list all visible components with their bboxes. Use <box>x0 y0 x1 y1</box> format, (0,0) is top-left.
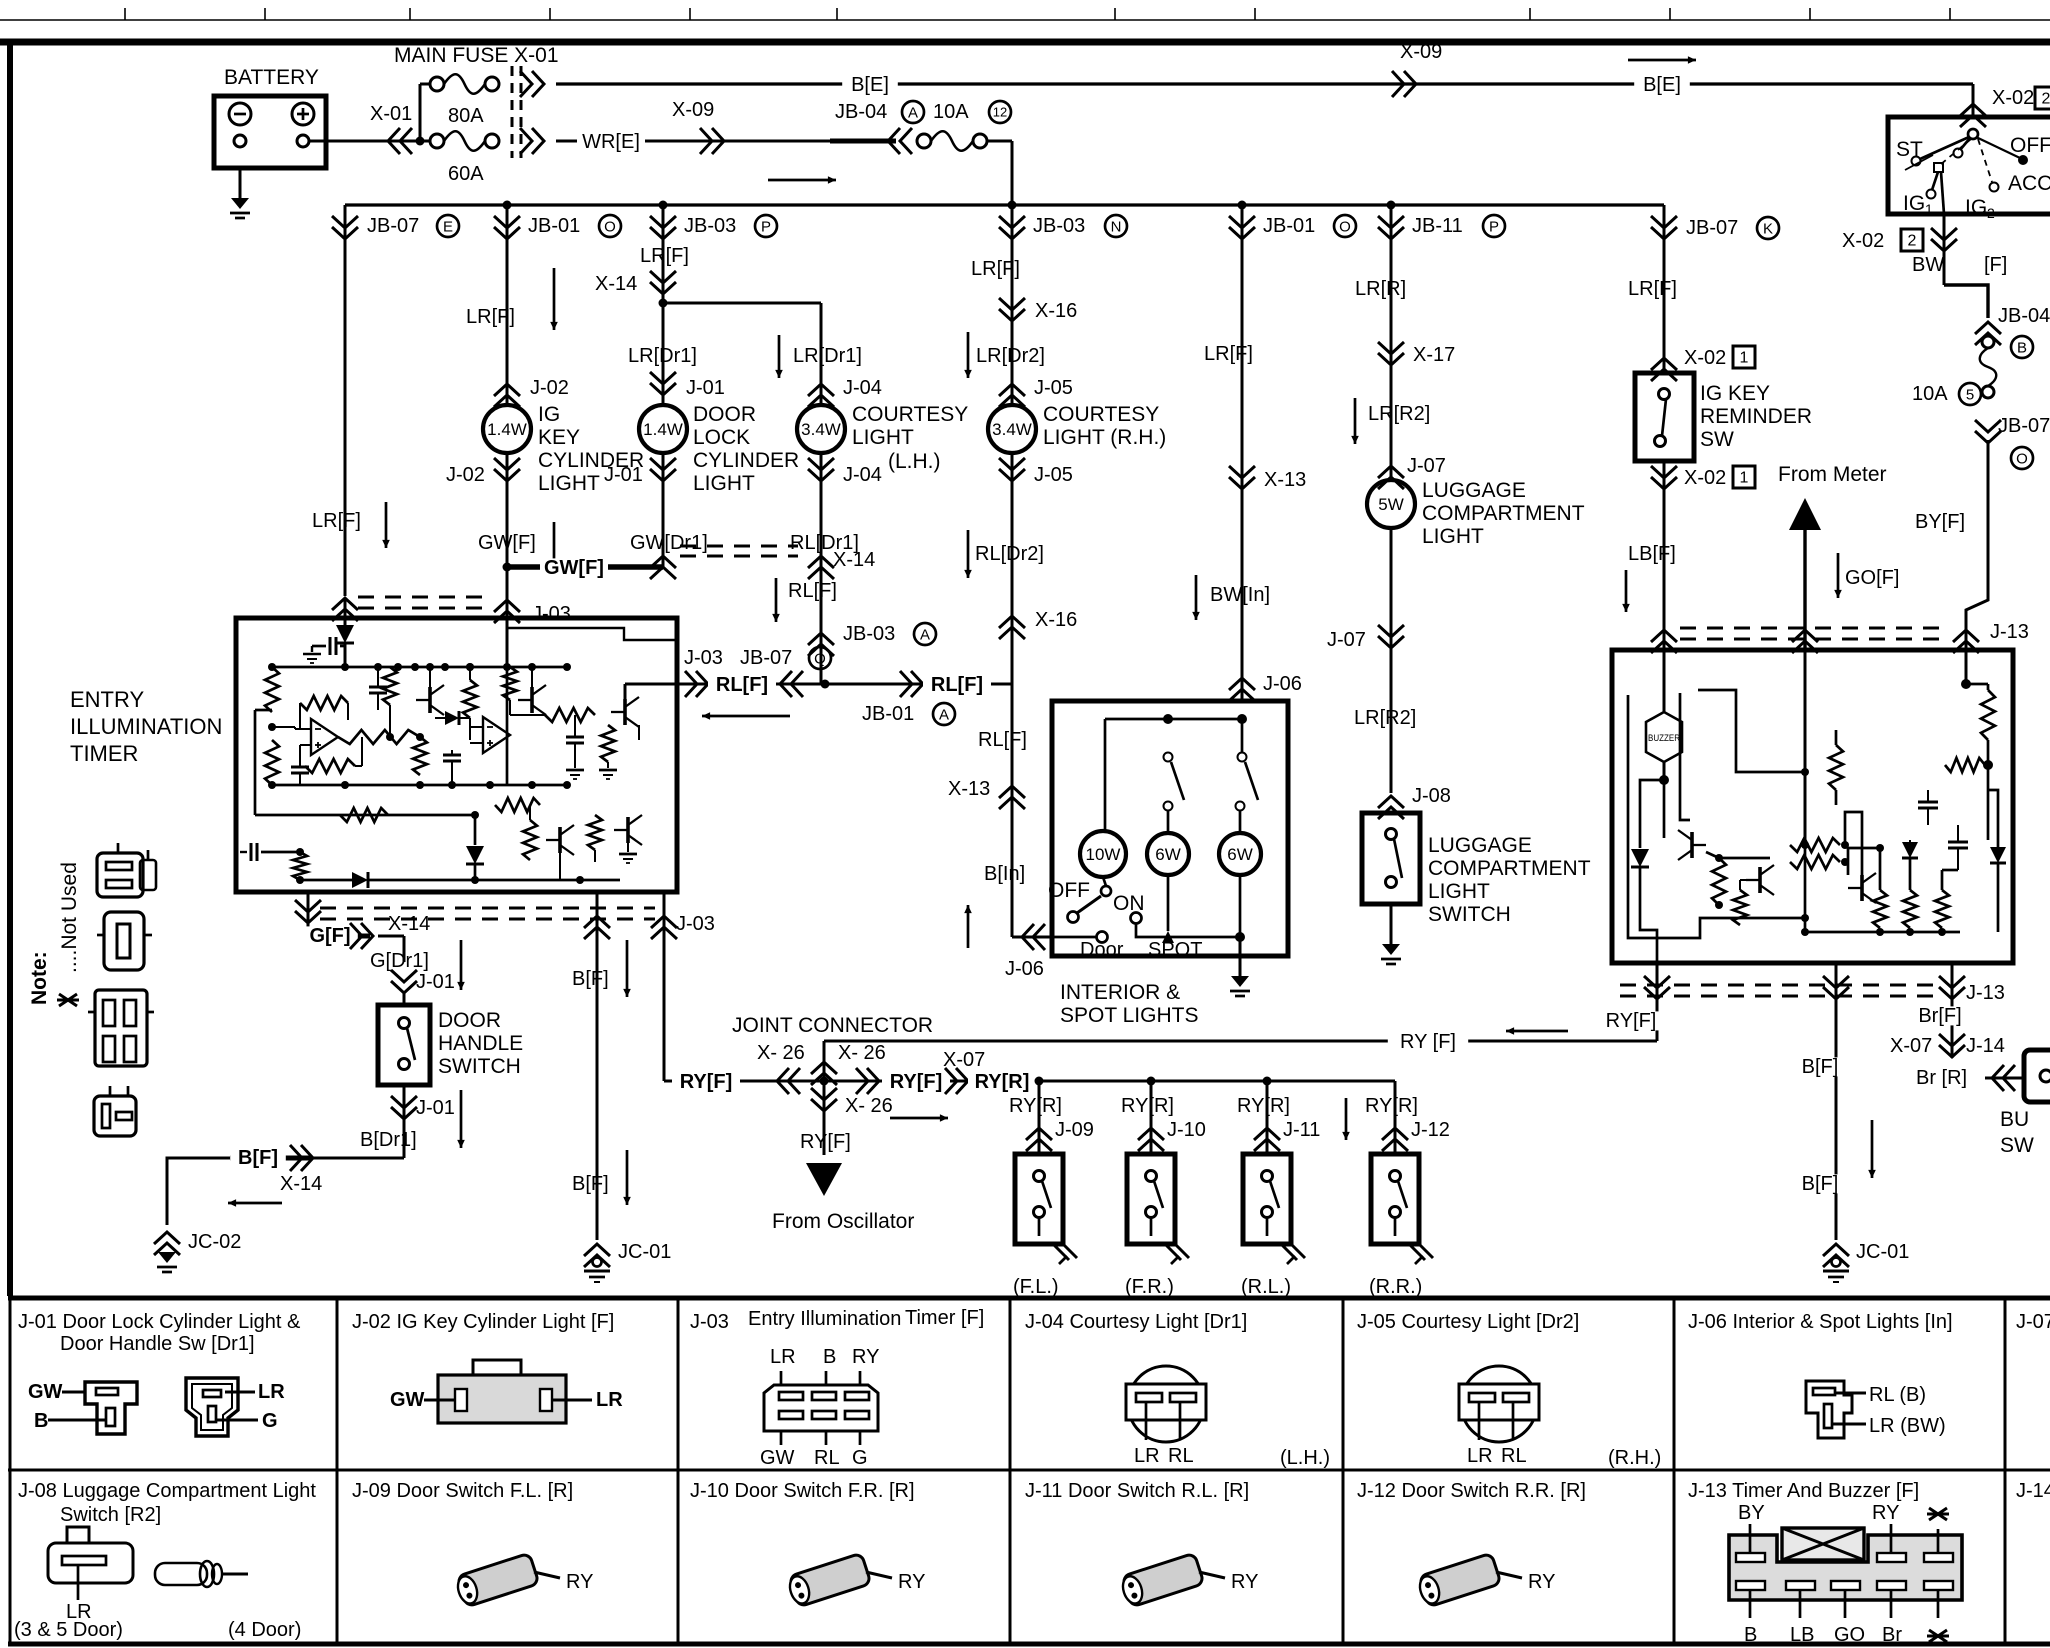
svg-text:X-02: X-02 <box>1992 87 2034 109</box>
table frame <box>8 1296 2050 1301</box>
svg-text:1: 1 <box>1925 201 1933 217</box>
svg-text:O: O <box>604 218 616 235</box>
svg-text:MAIN FUSE X-01: MAIN FUSE X-01 <box>394 44 559 67</box>
svg-text:LIGHT: LIGHT <box>693 472 755 495</box>
svg-text:LB[F]: LB[F] <box>1628 543 1676 565</box>
connector JB-07 K <box>1663 205 1666 373</box>
svg-text:X-14: X-14 <box>388 913 430 935</box>
switch J-12 door switch <box>1371 1154 1419 1244</box>
svg-text:RY[R]: RY[R] <box>1237 1095 1290 1117</box>
svg-text:Q: Q <box>814 650 826 667</box>
arrow under WR <box>768 179 836 182</box>
svg-text:(4 Door): (4 Door) <box>228 1619 301 1641</box>
svg-text:JC-01: JC-01 <box>618 1241 671 1263</box>
svg-text:GO: GO <box>1834 1624 1865 1646</box>
wire to 10W <box>1104 719 1107 831</box>
svg-text:J-03: J-03 <box>532 603 571 625</box>
svg-text:X-14: X-14 <box>595 273 637 295</box>
tb diode mid <box>1902 842 1918 858</box>
svg-text:B[In]: B[In] <box>984 863 1025 885</box>
connector X-26 down <box>823 1081 826 1155</box>
svg-text:X- 26: X- 26 <box>838 1042 886 1064</box>
svg-text:J-11 Door Switch R.L. [R]: J-11 Door Switch R.L. [R] <box>1025 1480 1249 1502</box>
connector X-09 on B[E] <box>1392 71 1416 97</box>
svg-text:P: P <box>1489 218 1499 235</box>
svg-text:X-01: X-01 <box>370 103 412 125</box>
svg-text:RY: RY <box>1231 1571 1258 1593</box>
wire RY[F] horizontal <box>664 1080 1395 1083</box>
svg-text:BUZZER: BUZZER <box>1648 733 1680 743</box>
arrow down <box>1354 398 1357 444</box>
svg-text:12: 12 <box>993 105 1007 120</box>
switch drawing J-12 <box>1416 1553 1501 1608</box>
arrow down between RL RR <box>1345 1098 1348 1140</box>
arrow down <box>385 502 388 548</box>
connector J-02 top <box>494 384 520 407</box>
connector X-02 2 lower <box>1931 228 1957 251</box>
ground hatch J-11 <box>1281 1244 1297 1260</box>
lamp spot 6W b <box>1219 833 1261 875</box>
switch drawing J-10 <box>786 1553 871 1608</box>
svg-text:GW: GW <box>390 1389 425 1411</box>
battery B1 <box>214 96 326 168</box>
svg-text:ENTRY: ENTRY <box>70 687 144 712</box>
svg-text:BU: BU <box>2000 1108 2029 1131</box>
svg-text:LR[R]: LR[R] <box>1355 278 1406 300</box>
top border <box>0 39 2050 46</box>
switch spot 2 <box>1241 719 1244 752</box>
svg-text:J-14: J-14 <box>1966 1035 2005 1057</box>
switch ignition ST/OFF/ACC/IG <box>1888 117 2050 214</box>
svg-text:(L.H.): (L.H.) <box>1280 1447 1330 1469</box>
svg-text:[F]: [F] <box>1984 254 2007 276</box>
svg-text:J-07: J-07 <box>1327 629 1366 651</box>
timer cap c2 <box>369 686 387 689</box>
timer feedback resistor 2 <box>305 759 355 773</box>
svg-text:BW[In]: BW[In] <box>1210 584 1270 606</box>
svg-text:B[E]: B[E] <box>851 74 889 96</box>
timer input cap and ground <box>340 645 345 648</box>
connector JB-04 B <box>1975 322 2001 345</box>
wire J-03 drop <box>506 567 509 618</box>
connector drawing a <box>97 853 143 897</box>
svg-text:RY[R]: RY[R] <box>975 1071 1030 1093</box>
svg-text:X-07: X-07 <box>943 1049 985 1071</box>
connector drawing b <box>104 912 144 970</box>
tb inner wire left <box>1628 695 1805 938</box>
svg-text:GW[F]: GW[F] <box>544 557 604 579</box>
svg-text:B: B <box>823 1346 836 1368</box>
tb right resistor <box>1961 679 1971 689</box>
svg-text:X-14: X-14 <box>833 549 875 571</box>
svg-text:IG: IG <box>1903 192 1925 215</box>
svg-text:J-07: J-07 <box>1407 455 1446 477</box>
svg-text:LIGHT: LIGHT <box>1422 525 1484 548</box>
svg-text:RL[F]: RL[F] <box>788 580 837 602</box>
connector X-07 J-14 <box>1939 1034 1965 1057</box>
switch drawing J-09 <box>454 1553 539 1608</box>
connector drawing J-04 <box>1128 1366 1204 1442</box>
svg-text:Door: Door <box>1080 939 1124 961</box>
svg-text:RY [F]: RY [F] <box>1400 1031 1456 1053</box>
lamp J-07 luggage compartment light 5W <box>1390 466 1393 480</box>
svg-text:J-01: J-01 <box>686 377 725 399</box>
svg-text:JC-02: JC-02 <box>188 1231 241 1253</box>
svg-text:J-08 Luggage Compartment Light: J-08 Luggage Compartment Light <box>18 1480 316 1502</box>
timer top-right branch wire <box>507 628 677 640</box>
svg-text:JOINT CONNECTOR: JOINT CONNECTOR <box>732 1014 933 1037</box>
connector JB-01 O <box>506 205 509 384</box>
arrow down <box>460 1090 463 1148</box>
arrow down <box>626 940 629 997</box>
connector J-13 bottom dashes <box>1620 984 1935 987</box>
lamp spot 6W a <box>1147 833 1189 875</box>
connector J-01 bottom <box>662 453 665 482</box>
svg-text:RL: RL <box>1168 1445 1194 1467</box>
svg-text:B[F]: B[F] <box>1802 1173 1839 1195</box>
arrow right <box>1628 59 1696 62</box>
svg-text:JB-07: JB-07 <box>1998 415 2050 437</box>
wire bus2 <box>345 203 1664 206</box>
svg-text:LR[Dr1]: LR[Dr1] <box>793 345 862 367</box>
wire fuse to bus2 <box>987 140 1012 143</box>
svg-text:3.4W: 3.4W <box>801 420 841 439</box>
svg-text:B: B <box>1744 1624 1757 1646</box>
timer transistor Q3 <box>623 699 627 725</box>
connector J-01 top <box>650 372 676 395</box>
svg-text:6W: 6W <box>1227 845 1253 864</box>
wire RY[F] return <box>824 1040 1657 1043</box>
svg-text:X-09: X-09 <box>672 99 714 121</box>
wire to buzzer switch <box>1985 1077 2024 1080</box>
connector J-07 top <box>1378 466 1404 489</box>
tb resistors r5 r6 r7 <box>1873 890 1887 928</box>
svg-text:LOCK: LOCK <box>693 426 750 449</box>
svg-text:J-11: J-11 <box>1283 1119 1320 1141</box>
svg-text:LIGHT (R.H.): LIGHT (R.H.) <box>1043 426 1166 449</box>
connector JC-01 right <box>1823 1244 1849 1267</box>
svg-text:10A: 10A <box>933 101 969 123</box>
svg-text:LR[F]: LR[F] <box>1204 343 1253 365</box>
connector J-05 bottom <box>1011 453 1014 482</box>
svg-text:G: G <box>852 1447 868 1469</box>
svg-text:....Not Used: ....Not Used <box>58 862 81 973</box>
svg-text:A: A <box>920 626 930 643</box>
connector J-10 <box>1150 1081 1153 1154</box>
connector JC-01 left <box>584 1244 610 1267</box>
connector J-04 top <box>808 384 834 407</box>
svg-text:J-10: J-10 <box>1167 1119 1206 1141</box>
svg-text:JB-07: JB-07 <box>1686 217 1738 239</box>
arrow down <box>626 1150 629 1205</box>
timer lower ground <box>627 843 629 852</box>
connector J-04 bottom <box>820 453 823 482</box>
timer mid vertical long <box>506 667 509 785</box>
timer cap c4 <box>566 736 584 739</box>
svg-text:BY: BY <box>1738 1502 1765 1524</box>
svg-text:J-07: J-07 <box>2016 1311 2050 1333</box>
timer input wire J-03 B <box>506 618 509 667</box>
svg-text:JB-11: JB-11 <box>1412 215 1463 237</box>
connector J-08 <box>1378 796 1404 819</box>
svg-text:J-08: J-08 <box>1412 785 1451 807</box>
svg-text:J-04: J-04 <box>843 464 882 486</box>
svg-text:1.4W: 1.4W <box>487 420 527 439</box>
svg-text:RY: RY <box>852 1346 879 1368</box>
lamp spot 10W <box>1080 831 1126 877</box>
svg-text:Switch [R2]: Switch [R2] <box>60 1504 161 1526</box>
arrow down <box>553 268 556 330</box>
svg-text:X-02: X-02 <box>1684 347 1726 369</box>
svg-text:BY[F]: BY[F] <box>1915 511 1965 533</box>
tb zener <box>1990 847 2006 863</box>
tb wire mid down <box>1804 845 1807 932</box>
connector X-02 1 lower <box>1663 461 1666 492</box>
svg-text:JB-07: JB-07 <box>740 647 792 669</box>
svg-text:X-02: X-02 <box>1684 467 1726 489</box>
connector X-16 <box>999 298 1025 321</box>
svg-text:B[E]: B[E] <box>1643 74 1681 96</box>
svg-text:G: G <box>262 1410 278 1432</box>
junction <box>659 201 668 210</box>
connector drawing J-01 b <box>186 1378 238 1436</box>
timer opamp 1 <box>311 719 338 755</box>
wire BY[F] <box>1966 440 1988 650</box>
svg-text:J-13: J-13 <box>1990 621 2029 643</box>
arrow down <box>1837 553 1840 598</box>
svg-text:LR: LR <box>1467 1445 1493 1467</box>
svg-text:IG: IG <box>538 403 560 426</box>
svg-text:SPOT LIGHTS: SPOT LIGHTS <box>1060 1004 1198 1027</box>
timer lower network <box>523 820 537 860</box>
fuse 60A <box>420 140 431 143</box>
svg-text:J-06 Interior & Spot Lights [I: J-06 Interior & Spot Lights [In] <box>1688 1311 1953 1333</box>
switch J-09 door switch <box>1015 1154 1063 1244</box>
tb resistors r3 r4 <box>1790 838 1840 852</box>
svg-text:X- 26: X- 26 <box>757 1042 805 1064</box>
connector J-13 RY lead <box>1644 976 1670 999</box>
buzzer wire down <box>1663 762 1666 780</box>
label WR[E] <box>577 132 645 151</box>
svg-text:LIGHT: LIGHT <box>852 426 914 449</box>
timer lower diode down <box>474 815 477 845</box>
svg-text:J-05: J-05 <box>1034 464 1073 486</box>
svg-text:G[F]: G[F] <box>309 925 350 947</box>
tb bottom rail <box>1805 931 1960 934</box>
svg-text:5: 5 <box>1966 386 1974 403</box>
svg-text:(F.R.): (F.R.) <box>1125 1276 1174 1298</box>
tb cap c1 <box>1918 801 1938 804</box>
svg-text:BW: BW <box>1912 254 1944 276</box>
svg-text:LB: LB <box>1790 1624 1814 1646</box>
ground hatch J-09 <box>1053 1244 1069 1260</box>
svg-text:(L.H.): (L.H.) <box>888 450 941 473</box>
node RL <box>821 680 830 689</box>
wire J-06 In ground <box>1239 937 1242 976</box>
tb wire q3 chain <box>1848 848 1880 875</box>
arrow down <box>1195 575 1198 620</box>
svg-text:J-05: J-05 <box>1034 377 1073 399</box>
svg-text:J-02 IG Key Cylinder Light [F]: J-02 IG Key Cylinder Light [F] <box>352 1311 614 1333</box>
svg-text:LR[F]: LR[F] <box>640 245 689 267</box>
tb cap c2 <box>1948 841 1968 844</box>
svg-text:LR[Dr1]: LR[Dr1] <box>628 345 697 367</box>
buzzer BZ <box>1646 712 1682 762</box>
ground (luggage switch) <box>1382 944 1400 955</box>
wire B[E] top bus <box>556 82 1973 85</box>
wire G[F] <box>308 934 370 939</box>
connector X-14 dashes <box>650 556 676 579</box>
svg-text:ILLUMINATION: ILLUMINATION <box>70 714 222 739</box>
svg-text:1: 1 <box>1740 350 1749 367</box>
svg-text:2: 2 <box>1908 233 1917 250</box>
svg-text:LR: LR <box>596 1389 623 1411</box>
connector J-03 <box>494 600 520 623</box>
arrow left <box>228 1202 282 1205</box>
svg-text:J-01 Door Lock Cylinder Light: J-01 Door Lock Cylinder Light & <box>18 1311 301 1333</box>
svg-text:Note:: Note: <box>28 951 51 1005</box>
connector boundary dashes <box>511 66 514 158</box>
switch J-10 door switch <box>1127 1154 1175 1244</box>
svg-text:DOOR: DOOR <box>438 1009 501 1032</box>
node fuse-in <box>416 137 425 146</box>
ground JC-01 left <box>593 1258 602 1267</box>
node GW <box>503 563 512 572</box>
tb resistor top right h <box>1945 758 1985 772</box>
svg-text:J-04 Courtesy Light [Dr1]: J-04 Courtesy Light [Dr1] <box>1025 1311 1247 1333</box>
switch IG key reminder SW <box>1635 373 1694 461</box>
svg-text:O: O <box>2016 450 2028 467</box>
svg-text:LR (BW): LR (BW) <box>1869 1415 1946 1437</box>
timer out wire <box>624 684 627 699</box>
svg-text:J-03: J-03 <box>690 1311 729 1333</box>
svg-text:K: K <box>1763 220 1773 237</box>
svg-text:RY[F]: RY[F] <box>800 1131 851 1153</box>
svg-text:RL: RL <box>1501 1445 1527 1467</box>
svg-text:X-13: X-13 <box>948 778 990 800</box>
svg-text:RY: RY <box>566 1571 593 1593</box>
svg-text:Entry Illumination: Entry Illumination <box>748 1308 901 1330</box>
svg-text:A: A <box>908 104 918 121</box>
label B[E] right <box>1634 75 1690 94</box>
connector chevrons RL[F] <box>685 671 708 697</box>
svg-text:10W: 10W <box>1086 845 1121 864</box>
wire 6W bottoms <box>1167 875 1170 931</box>
svg-text:LR[Dr2]: LR[Dr2] <box>976 345 1045 367</box>
svg-text:JB-03: JB-03 <box>1033 215 1085 237</box>
svg-text:Br: Br <box>1882 1624 1902 1646</box>
svg-text:B[F]: B[F] <box>572 968 609 990</box>
svg-text:LUGGAGE: LUGGAGE <box>1422 479 1526 502</box>
dashes J-03 <box>358 607 492 610</box>
box entry illumination timer J-03 <box>236 618 677 892</box>
svg-text:COMPARTMENT: COMPARTMENT <box>1422 502 1585 525</box>
wire GW[Dr1] <box>662 482 665 567</box>
svg-text:RL: RL <box>814 1447 840 1469</box>
wire B[E] drop <box>1972 84 1975 117</box>
connector drawing J-08 <box>67 1527 89 1543</box>
fuse 10A right <box>1982 336 1994 348</box>
svg-text:G[Dr1]: G[Dr1] <box>370 950 429 972</box>
lamp J-02 IG key cylinder light 1.4W <box>506 384 509 405</box>
arrow up <box>967 905 970 948</box>
svg-text:JB-01: JB-01 <box>862 703 914 725</box>
junction <box>1387 201 1396 210</box>
svg-text:J-01: J-01 <box>416 1097 455 1119</box>
svg-text:ACC: ACC <box>2008 172 2050 195</box>
connector J-09 <box>1038 1081 1041 1154</box>
svg-text:IG KEY: IG KEY <box>1700 382 1770 405</box>
svg-text:RY: RY <box>1872 1502 1899 1524</box>
tb inner wires <box>1680 693 1690 820</box>
svg-text:LR: LR <box>1134 1445 1160 1467</box>
timer resistor v2 <box>463 680 477 718</box>
switch door OFF/ON <box>1103 877 1106 886</box>
timer cap c1 <box>291 766 309 769</box>
svg-text:J-03: J-03 <box>684 647 723 669</box>
timer output resistor <box>338 730 420 744</box>
wire to ground <box>1390 904 1393 944</box>
svg-text:GW[Dr1]: GW[Dr1] <box>630 532 708 554</box>
fuse JB-04 10A <box>917 134 931 148</box>
svg-text:J-09 Door Switch F.L. [R]: J-09 Door Switch F.L. [R] <box>352 1480 573 1502</box>
svg-text:X-16: X-16 <box>1035 300 1077 322</box>
junction <box>1238 201 1247 210</box>
svg-text:J-05 Courtesy Light [Dr2]: J-05 Courtesy Light [Dr2] <box>1357 1311 1579 1333</box>
node door switch J-11 <box>1263 1077 1272 1086</box>
svg-text:J-14: J-14 <box>2016 1480 2050 1502</box>
svg-text:Br [R]: Br [R] <box>1916 1067 1967 1089</box>
arrow left <box>702 715 790 718</box>
connector X-16 lower <box>999 616 1025 639</box>
connector J-06 top <box>1229 678 1255 701</box>
svg-text:X-17: X-17 <box>1413 344 1455 366</box>
svg-text:X-02: X-02 <box>1842 230 1884 252</box>
arrow from oscillator <box>806 1163 842 1196</box>
spot bottom rail <box>1052 936 1096 939</box>
fuse 80A <box>420 83 431 86</box>
svg-text:J-12 Door Switch R.R. [R]: J-12 Door Switch R.R. [R] <box>1357 1480 1586 1502</box>
svg-text:ON: ON <box>1113 892 1145 915</box>
wire WR[F] thick <box>830 139 896 144</box>
svg-text:B: B <box>2017 339 2027 356</box>
tb inner wire top <box>1698 690 1805 772</box>
svg-text:INTERIOR &: INTERIOR & <box>1060 981 1180 1004</box>
svg-text:B[F]: B[F] <box>1802 1056 1839 1078</box>
svg-text:KEY: KEY <box>538 426 580 449</box>
svg-text:DOOR: DOOR <box>693 403 756 426</box>
svg-text:X-13: X-13 <box>1264 469 1306 491</box>
ground JC-02 <box>158 1252 176 1263</box>
timer input diode <box>344 598 347 626</box>
svg-text:J-06: J-06 <box>1005 958 1044 980</box>
connector JB-07 E <box>344 205 347 596</box>
svg-text:JB-07: JB-07 <box>367 215 419 237</box>
page rule top <box>0 19 2050 21</box>
connector drawing d <box>94 1096 136 1136</box>
junction <box>503 201 512 210</box>
connector drawing J-06 <box>1806 1381 1852 1438</box>
timer lower resistor v <box>293 852 307 880</box>
svg-text:LR[R2]: LR[R2] <box>1354 707 1416 729</box>
svg-text:OFF: OFF <box>2010 134 2050 157</box>
svg-text:RY[F]: RY[F] <box>680 1071 733 1093</box>
timer resistor vertical mid <box>383 667 397 705</box>
wire fuse branch <box>419 84 422 141</box>
svg-text:P: P <box>761 218 771 235</box>
timer top rail <box>272 666 567 669</box>
node branch <box>659 299 668 308</box>
